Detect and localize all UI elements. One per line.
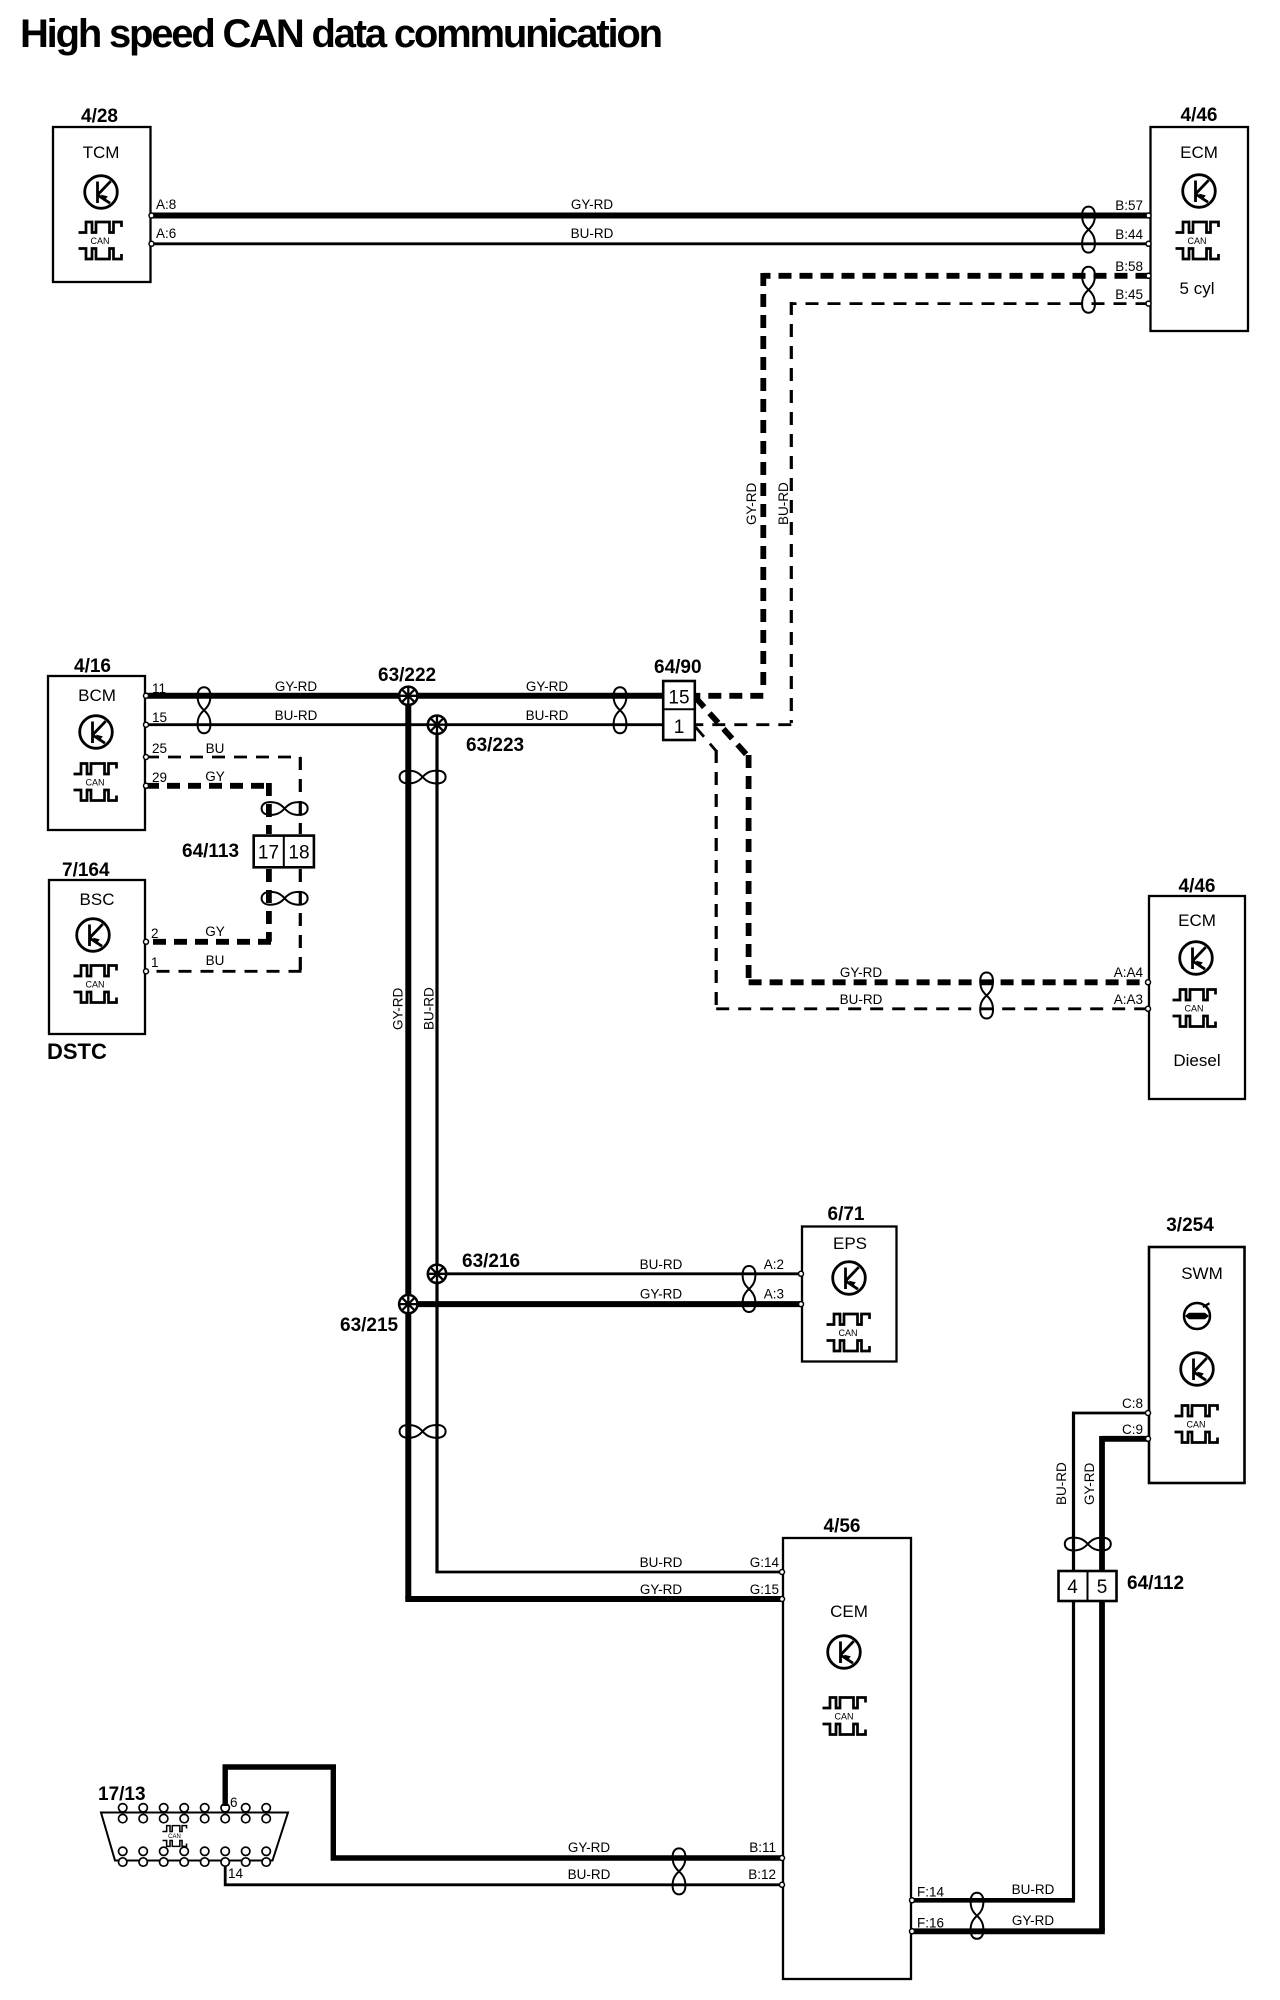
junction 63/215 — [340, 1295, 417, 1336]
wire BU-RD SWM C:8 to connector 64/112 pin 4 — [1054, 1396, 1148, 1571]
svg-text:11: 11 — [152, 681, 166, 696]
twisted pair symbol diesel pair — [980, 973, 993, 1019]
wire BU dashed BCM 25 to connector 64/113 pin 18 — [146, 741, 300, 834]
twisted pair symbol above 64/113 — [262, 802, 308, 815]
svg-text:CAN: CAN — [1184, 1004, 1203, 1014]
wire GY-RD SWM C:9 to connector 64/112 pin 5 — [1082, 1422, 1148, 1571]
svg-text:F:14: F:14 — [917, 1885, 945, 1900]
svg-text:17/13: 17/13 — [98, 1784, 146, 1805]
svg-text:4/28: 4/28 — [81, 106, 118, 127]
svg-text:BU-RD: BU-RD — [571, 226, 614, 241]
svg-text:BU: BU — [206, 953, 225, 968]
wire BU dashed connector 64/113 pin 18 to BSC 1 — [146, 869, 302, 971]
svg-text:ECM: ECM — [1180, 143, 1218, 162]
svg-text:63/222: 63/222 — [378, 665, 436, 686]
pin circles — [144, 213, 1152, 1934]
control module ECM 4/46 (Diesel) — [1149, 876, 1245, 1099]
svg-text:25: 25 — [152, 741, 167, 756]
svg-text:G:15: G:15 — [750, 1582, 779, 1597]
svg-text:C:9: C:9 — [1122, 1422, 1143, 1437]
svg-text:A:A3: A:A3 — [1114, 992, 1143, 1007]
connector 64/113 pins 17 and 18 — [182, 836, 314, 868]
svg-text:B:45: B:45 — [1115, 287, 1143, 302]
svg-text:CAN: CAN — [1187, 236, 1206, 246]
svg-text:F:16: F:16 — [917, 1916, 944, 1931]
svg-text:3/254: 3/254 — [1166, 1215, 1214, 1236]
svg-text:CEM: CEM — [830, 1602, 868, 1621]
twisted pair symbol CEM B pair — [673, 1848, 686, 1894]
svg-text:B:44: B:44 — [1115, 227, 1143, 242]
svg-text:BU-RD: BU-RD — [568, 1867, 611, 1882]
control module BSC 7/164 DSTC — [47, 860, 145, 1064]
svg-text:TCM: TCM — [83, 143, 120, 162]
svg-text:BU-RD: BU-RD — [421, 987, 436, 1030]
wire GY-RD TCM A:8 to ECM B:57 — [152, 197, 1149, 216]
svg-text:GY: GY — [205, 769, 225, 784]
svg-text:DSTC: DSTC — [47, 1039, 107, 1064]
twisted pair symbol above 64/112 — [1065, 1538, 1111, 1551]
svg-text:A:2: A:2 — [764, 1257, 784, 1272]
svg-text:7/164: 7/164 — [62, 860, 110, 881]
svg-text:63/216: 63/216 — [462, 1251, 520, 1272]
control module ECM 4/46 (5 cyl) — [1151, 105, 1249, 331]
twisted pair symbol on bus below EPS branch — [400, 1425, 446, 1438]
svg-text:BU-RD: BU-RD — [776, 482, 791, 525]
svg-text:4/56: 4/56 — [824, 1516, 861, 1537]
svg-text:BU-RD: BU-RD — [526, 708, 569, 723]
svg-text:6/71: 6/71 — [828, 1204, 865, 1225]
wire GY-RD connector 64/112 pin 5 to CEM F:16 — [912, 1601, 1105, 1931]
svg-text:GY-RD: GY-RD — [275, 679, 318, 694]
junction 63/223 — [428, 716, 524, 757]
svg-text:High speed CAN data communicat: High speed CAN data communication — [20, 12, 661, 56]
wire BU-RD connector 64/112 pin 4 to CEM F:14 — [912, 1601, 1075, 1900]
wire BU-RD BCM 15 to connector 64/90 pin 1 — [146, 708, 662, 725]
wire GY-RD dashed connector 64/90 pin 15 to ECM Diesel A:A4 — [696, 698, 1149, 983]
twisted pair symbol on bus below 63/223 — [400, 771, 446, 784]
svg-text:GY-RD: GY-RD — [1082, 1462, 1097, 1505]
wire BU-RD 63/216 to EPS A:2 — [437, 1257, 801, 1274]
twisted pair symbol TCM-ECM — [1082, 207, 1095, 253]
svg-text:BSC: BSC — [80, 890, 115, 909]
svg-text:SWM: SWM — [1181, 1264, 1223, 1283]
svg-text:BU-RD: BU-RD — [275, 708, 318, 723]
svg-text:B:11: B:11 — [749, 1840, 776, 1855]
twisted pair symbol below 64/113 — [262, 892, 308, 905]
twisted pair symbol left of 64/90 — [614, 687, 627, 733]
svg-text:C:8: C:8 — [1122, 1396, 1143, 1411]
svg-text:BCM: BCM — [78, 686, 116, 705]
wire BU-RD DLC pin 14 to CEM B:12 — [225, 1866, 782, 1885]
control module SWM 3/254 — [1149, 1215, 1245, 1483]
svg-text:15: 15 — [152, 710, 167, 725]
twisted pair symbol CEM F pair — [971, 1893, 984, 1939]
svg-text:BU-RD: BU-RD — [640, 1555, 683, 1570]
svg-text:A:3: A:3 — [764, 1287, 784, 1302]
svg-text:GY-RD: GY-RD — [840, 965, 883, 980]
junction 63/222 — [378, 665, 436, 705]
svg-text:A:6: A:6 — [156, 226, 176, 241]
svg-text:64/112: 64/112 — [1127, 1573, 1184, 1594]
svg-text:GY-RD: GY-RD — [640, 1287, 683, 1302]
svg-text:1: 1 — [151, 955, 159, 970]
svg-text:6: 6 — [230, 1795, 238, 1810]
data link connector 17/13 — [98, 1784, 288, 1881]
svg-text:CAN: CAN — [1186, 1420, 1205, 1430]
control module BCM 4/16 — [48, 656, 145, 830]
svg-text:63/215: 63/215 — [340, 1315, 399, 1336]
svg-text:CAN: CAN — [834, 1712, 853, 1722]
svg-text:A:8: A:8 — [156, 197, 176, 212]
wire GY dashed BCM 29 to connector 64/113 pin 17 — [146, 769, 269, 834]
wire BU-RD dashed connector 64/90 pin 1 to ECM Diesel A:A3 — [696, 727, 1149, 1009]
svg-text:5 cyl: 5 cyl — [1180, 279, 1215, 298]
svg-text:BU-RD: BU-RD — [1054, 1462, 1069, 1505]
twisted pair symbol dashed pair at ECM — [1082, 267, 1095, 313]
svg-text:4/46: 4/46 — [1179, 876, 1216, 897]
wire GY-RD 63/215 to EPS A:3 — [408, 1287, 801, 1305]
junction 63/216 — [428, 1251, 520, 1283]
svg-text:1: 1 — [674, 717, 685, 738]
svg-text:15: 15 — [668, 688, 689, 709]
svg-text:GY: GY — [205, 924, 225, 939]
svg-text:EPS: EPS — [833, 1234, 867, 1253]
twisted pair symbol at BCM — [198, 687, 211, 733]
control module CEM 4/56 — [783, 1516, 911, 1979]
svg-text:GY-RD: GY-RD — [571, 197, 614, 212]
connector 64/90 pins 15 and 1 — [654, 657, 702, 740]
wire GY dashed connector 64/113 pin 17 to BSC 2 — [146, 869, 271, 942]
svg-text:64/113: 64/113 — [182, 841, 239, 862]
svg-text:GY-RD: GY-RD — [1012, 1913, 1055, 1928]
svg-text:64/90: 64/90 — [654, 657, 702, 678]
svg-text:GY-RD: GY-RD — [391, 987, 406, 1030]
control module EPS 6/71 — [802, 1204, 897, 1362]
svg-text:CAN: CAN — [85, 778, 104, 788]
wire GY-RD DLC pin 6 to CEM B:11 — [225, 1767, 782, 1858]
svg-text:BU-RD: BU-RD — [640, 1257, 683, 1272]
wire BU-RD vertical bus 63/223 to CEM G:14 — [421, 725, 782, 1572]
wire GY-RD BCM 11 to connector 64/90 pin 15 — [146, 679, 662, 696]
svg-text:GY-RD: GY-RD — [568, 1840, 611, 1855]
control module TCM 4/28 — [53, 106, 151, 282]
svg-text:GY-RD: GY-RD — [744, 482, 759, 525]
svg-text:29: 29 — [152, 770, 167, 785]
svg-text:GY-RD: GY-RD — [526, 679, 569, 694]
svg-text:CAN: CAN — [90, 236, 109, 246]
svg-text:4: 4 — [1067, 1577, 1078, 1598]
svg-text:5: 5 — [1097, 1577, 1108, 1598]
svg-text:14: 14 — [228, 1866, 244, 1881]
svg-text:GY-RD: GY-RD — [640, 1582, 683, 1597]
wire GY-RD vertical bus 63/222 to CEM G:15 — [391, 696, 783, 1599]
svg-text:Diesel: Diesel — [1173, 1051, 1220, 1070]
svg-text:B:57: B:57 — [1115, 198, 1143, 213]
svg-text:2: 2 — [151, 926, 159, 941]
twisted pair symbol EPS pair — [743, 1266, 756, 1312]
svg-text:4/46: 4/46 — [1181, 105, 1218, 126]
svg-text:63/223: 63/223 — [466, 735, 524, 756]
svg-text:BU-RD: BU-RD — [1012, 1882, 1055, 1897]
svg-text:CAN: CAN — [838, 1328, 857, 1338]
svg-text:BU: BU — [206, 741, 225, 756]
svg-text:17: 17 — [258, 843, 279, 864]
svg-text:G:14: G:14 — [750, 1555, 780, 1570]
svg-text:4/16: 4/16 — [74, 656, 111, 677]
svg-text:B:12: B:12 — [748, 1867, 776, 1882]
connector 64/112 pins 4 and 5 — [1059, 1571, 1185, 1601]
wire BU-RD TCM A:6 to ECM B:44 — [152, 226, 1149, 244]
svg-text:ECM: ECM — [1178, 911, 1216, 930]
wire BU-RD dashed ECM B:45 to connector 64/90 pin 1 — [696, 287, 1149, 725]
svg-text:18: 18 — [288, 843, 309, 864]
svg-text:A:A4: A:A4 — [1114, 965, 1144, 980]
svg-text:CAN: CAN — [85, 980, 104, 990]
wire GY-RD dashed ECM B:58 to connector 64/90 pin 15 — [696, 259, 1149, 696]
svg-text:B:58: B:58 — [1115, 259, 1143, 274]
svg-text:CAN: CAN — [168, 1834, 181, 1840]
svg-text:BU-RD: BU-RD — [840, 992, 883, 1007]
